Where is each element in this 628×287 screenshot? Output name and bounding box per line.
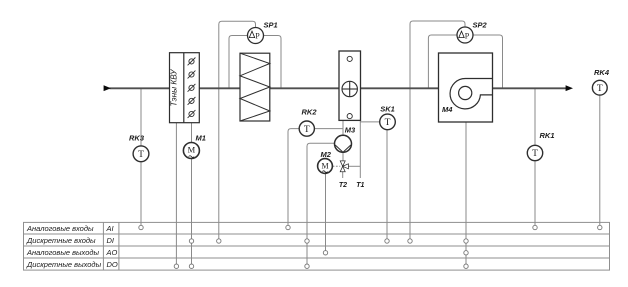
wire M4 drop [465, 122, 467, 264]
svg-text:Тэны КВУ: Тэны КВУ [170, 69, 179, 107]
svg-text:M1: M1 [196, 134, 206, 143]
motor M1 [183, 143, 199, 159]
sensor SP1 [248, 28, 264, 44]
water coil with damper symbol [339, 51, 361, 120]
node RK3 AI [139, 225, 143, 229]
wire coil to pump M3 [342, 120, 344, 135]
sensor SP2 [457, 27, 473, 43]
node M1 DI [189, 239, 193, 243]
node M3 DO [305, 264, 309, 268]
node M2 AO [323, 251, 327, 255]
svg-text:M: M [321, 161, 328, 170]
svg-text:SP2: SP2 [473, 20, 488, 29]
wire SP1 right tap [263, 36, 281, 88]
svg-text:M: M [188, 145, 196, 155]
svg-text:T: T [385, 118, 391, 128]
svg-text:T: T [138, 150, 144, 160]
svg-text:RK2: RK2 [302, 108, 318, 117]
sensor RK3 [133, 146, 149, 162]
node RK2 AI [286, 225, 290, 229]
wire SP1 signal [219, 21, 256, 239]
svg-text:AI: AI [106, 224, 114, 233]
svg-text:P: P [255, 32, 260, 41]
wire SP2 right tap [473, 35, 503, 88]
wire M2 drop [325, 174, 327, 251]
node M4 AO [464, 251, 468, 255]
wire heater DO drop [175, 123, 177, 264]
wire valve right port [348, 165, 360, 167]
wire SK1 drop [386, 130, 388, 239]
svg-text:Дискретные входы: Дискретные входы [26, 236, 96, 245]
wire SP2 signal [410, 21, 465, 239]
svg-text:DI: DI [107, 236, 115, 245]
io table [24, 222, 610, 270]
svg-text:RK1: RK1 [540, 131, 555, 140]
sensor RK1 [527, 145, 542, 160]
table row labels [26, 224, 118, 269]
duct main line [110, 87, 567, 89]
heat exchanger [240, 53, 270, 121]
node heater DO [174, 264, 178, 268]
heater block Тэны КВУ [170, 53, 200, 123]
node RK1 AI [533, 225, 537, 229]
wire RK2 to pipe [315, 128, 343, 130]
node M1 DO [189, 264, 193, 268]
wire RK4 drop [599, 95, 601, 225]
wire RK3 drop [140, 88, 142, 225]
heater element symbols [188, 58, 196, 118]
wire pump M3 to valve [342, 152, 344, 161]
wire pump M3 signal [307, 143, 335, 264]
svg-text:SK1: SK1 [380, 105, 395, 114]
wire M1 drop [191, 123, 193, 264]
heat exchanger zigzag [240, 53, 270, 121]
node M3 DI [305, 239, 309, 243]
svg-text:AO: AO [106, 248, 118, 257]
sensor RK4 [592, 80, 607, 95]
motor M2 [318, 159, 333, 174]
wire SK1 capillary [360, 121, 379, 123]
svg-text:Аналоговые выходы: Аналоговые выходы [26, 248, 100, 257]
fan unit M4 [439, 53, 493, 122]
wire SP1 left tap [229, 36, 248, 88]
svg-text:T2: T2 [339, 182, 347, 189]
connection nodes [139, 225, 602, 268]
svg-text:RK4: RK4 [594, 68, 610, 77]
svg-text:Дискретные выходы: Дискретные выходы [26, 260, 102, 269]
svg-text:M2: M2 [321, 150, 332, 159]
svg-text:RK3: RK3 [129, 133, 145, 142]
pump M3 [335, 135, 352, 152]
wire SP2 left tap [428, 35, 457, 88]
svg-text:Аналоговые входы: Аналоговые входы [26, 224, 94, 233]
svg-text:M4: M4 [442, 105, 453, 114]
svg-text:SP1: SP1 [264, 21, 278, 30]
wire M2 valve dash link [333, 165, 341, 167]
three-way valve [340, 161, 348, 172]
wire RK1 drop [534, 88, 536, 225]
node RK4 AI [598, 225, 602, 229]
svg-text:DO: DO [107, 260, 118, 269]
fan scroll [450, 78, 492, 108]
node M4 DI [464, 239, 468, 243]
wire coil pipe T1 riser [359, 120, 361, 178]
wire valve T2 stub [342, 172, 344, 179]
outlet arrow [566, 85, 573, 91]
node SK1 DI [385, 239, 389, 243]
svg-text:T: T [304, 125, 310, 135]
node SP2 DI [408, 239, 412, 243]
inlet arrow [104, 85, 111, 91]
node SP1 DI [217, 239, 221, 243]
sensor RK2 [299, 121, 314, 136]
svg-text:T1: T1 [356, 182, 364, 189]
svg-text:T: T [532, 149, 538, 159]
node M4 DO [464, 264, 468, 268]
svg-text:P: P [465, 32, 470, 41]
sensor SK1 [380, 114, 396, 130]
wire RK2 drop [288, 129, 299, 226]
svg-text:T: T [597, 84, 603, 94]
svg-text:M3: M3 [345, 125, 356, 134]
